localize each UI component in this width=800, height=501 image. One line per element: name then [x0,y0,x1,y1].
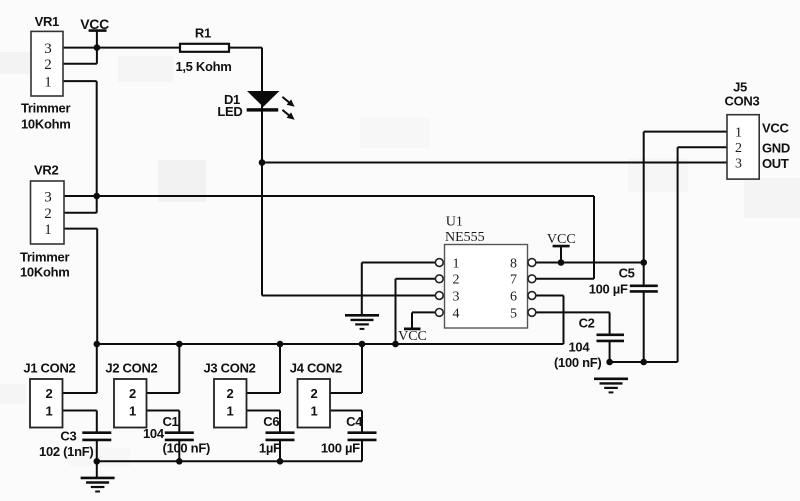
svg-text:VCC: VCC [547,232,576,247]
svg-text:1: 1 [311,404,318,419]
svg-text:LED: LED [217,104,242,119]
svg-text:1: 1 [227,404,234,419]
svg-text:1: 1 [735,125,742,140]
svg-text:1: 1 [44,222,52,238]
svg-text:(100 nF): (100 nF) [554,355,601,370]
svg-text:1µF: 1µF [259,441,281,456]
svg-text:2: 2 [453,273,460,288]
svg-text:U1: U1 [446,215,463,230]
svg-text:7: 7 [510,273,517,288]
svg-text:Trimmer: Trimmer [20,249,69,264]
svg-text:2: 2 [44,57,52,73]
svg-text:VR2: VR2 [34,162,58,177]
svg-text:6: 6 [510,289,517,304]
svg-text:GND: GND [762,141,790,156]
svg-text:C1: C1 [162,414,178,429]
svg-text:3: 3 [44,41,52,57]
svg-text:C5: C5 [619,265,635,280]
svg-text:1: 1 [129,404,136,419]
svg-text:(100 nF): (100 nF) [163,441,210,456]
svg-text:2: 2 [46,386,53,401]
svg-text:10Kohm: 10Kohm [21,116,71,131]
svg-text:C4: C4 [346,414,363,429]
svg-text:J3 CON2: J3 CON2 [204,361,256,376]
svg-text:2: 2 [227,386,234,401]
svg-text:1,5 Kohm: 1,5 Kohm [175,59,231,74]
svg-text:8: 8 [510,256,517,271]
svg-text:C6: C6 [263,414,279,429]
svg-text:104: 104 [143,426,165,441]
svg-text:102 (1nF): 102 (1nF) [39,444,93,459]
svg-text:4: 4 [453,306,460,321]
svg-text:2: 2 [311,386,318,401]
svg-text:J2 CON2: J2 CON2 [105,361,157,376]
svg-text:VCC: VCC [398,329,427,344]
svg-text:J4 CON2: J4 CON2 [290,361,342,376]
svg-text:10Kohm: 10Kohm [20,265,70,280]
svg-text:Trimmer: Trimmer [21,101,70,116]
svg-text:J5: J5 [733,80,747,95]
svg-text:C2: C2 [579,315,595,330]
svg-text:3: 3 [453,289,460,304]
svg-text:100 µF: 100 µF [321,441,360,456]
svg-text:CON3: CON3 [725,94,760,109]
svg-text:R1: R1 [195,26,211,41]
svg-text:VCC: VCC [762,120,789,135]
svg-text:1: 1 [44,74,52,90]
svg-text:VCC: VCC [80,16,109,32]
svg-text:3: 3 [735,156,742,171]
svg-text:2: 2 [44,206,52,222]
svg-text:1: 1 [46,404,53,419]
svg-text:100 µF: 100 µF [589,281,628,296]
svg-text:OUT: OUT [762,156,789,171]
svg-text:2: 2 [735,141,742,156]
svg-text:5: 5 [510,306,517,321]
svg-text:C3: C3 [60,429,76,444]
svg-text:2: 2 [129,386,136,401]
svg-text:104: 104 [569,339,591,354]
svg-text:VR1: VR1 [35,14,59,29]
svg-text:3: 3 [44,189,52,205]
svg-text:1: 1 [453,256,460,271]
svg-text:NE555: NE555 [445,230,485,245]
svg-text:J1 CON2: J1 CON2 [23,361,75,376]
